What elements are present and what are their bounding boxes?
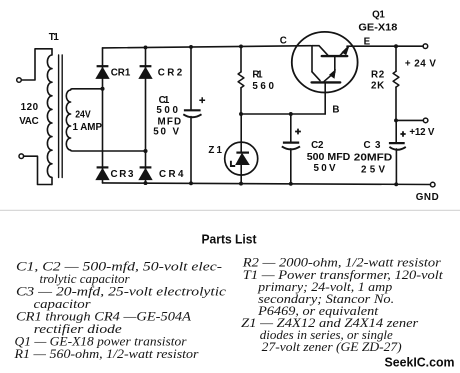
- node top rail / CR2: [144, 45, 148, 49]
- svg-text:CR4: CR4: [159, 169, 184, 180]
- resistor R2: [393, 71, 399, 87]
- svg-text:+ 24 V: + 24 V: [405, 58, 436, 69]
- svg-text:27-volt zener (GE ZD-27): 27-volt zener (GE ZD-27): [262, 339, 402, 354]
- wire C2 column: [290, 114, 292, 184]
- node E rail / R2: [394, 44, 398, 48]
- svg-text:500 MFD: 500 MFD: [307, 152, 351, 163]
- node ground / CR4: [144, 181, 148, 185]
- zener Z1 symbol: [231, 142, 249, 175]
- wire R1 column top: [240, 46, 242, 72]
- svg-text:C2: C2: [311, 140, 324, 151]
- svg-text:50V: 50V: [314, 163, 336, 174]
- wire diode column CR1/CR3: [102, 48, 104, 183]
- svg-text:1 AMP: 1 AMP: [73, 122, 103, 133]
- wire node B horizontal: [241, 113, 325, 115]
- parts list left column: [13, 258, 226, 361]
- wire +12V tap: [396, 119, 423, 121]
- wire primary bottom lead: [24, 156, 52, 184]
- transformer T1 primary winding: [47, 49, 52, 185]
- node ground / C3: [394, 182, 398, 186]
- svg-text:GE-X18: GE-X18: [358, 23, 398, 34]
- transformer T1 core: [59, 55, 63, 178]
- svg-text:560: 560: [252, 81, 274, 92]
- svg-text:2K: 2K: [371, 81, 384, 92]
- svg-text:R1: R1: [252, 70, 263, 81]
- svg-text:SeekIC.com: SeekIC.com: [385, 356, 455, 370]
- svg-text:+12 V: +12 V: [409, 127, 434, 138]
- node B / C2: [289, 112, 293, 116]
- transformer T1 secondary winding: [66, 89, 145, 151]
- node top rail / C1: [189, 45, 193, 49]
- svg-text:25V: 25V: [361, 164, 385, 175]
- svg-text:E: E: [364, 36, 371, 47]
- wire capacitor C1 column: [190, 47, 192, 183]
- svg-text:120: 120: [21, 102, 39, 113]
- terminal +24V: [423, 44, 428, 49]
- node ground / Z1: [239, 182, 243, 186]
- svg-text:GND: GND: [416, 192, 439, 203]
- capacitor C1 plates: [184, 109, 201, 111]
- svg-text:CR1: CR1: [111, 68, 131, 79]
- svg-text:C: C: [280, 36, 287, 47]
- node ground / C2: [289, 182, 293, 186]
- svg-text:Q1: Q1: [372, 10, 385, 21]
- wire R2 to +12V node: [395, 87, 397, 120]
- svg-text:20MFD: 20MFD: [354, 153, 393, 164]
- wire zener Z1 column: [240, 114, 242, 184]
- svg-text:VAC: VAC: [19, 116, 39, 127]
- svg-text:B: B: [332, 105, 339, 116]
- DIODES: [96, 66, 152, 179]
- node B / R1: [239, 112, 243, 116]
- diode CR3: [97, 166, 109, 168]
- parts list divider rule: [0, 209, 460, 211]
- node ground / C1: [189, 181, 193, 185]
- terminal GND: [430, 182, 435, 187]
- diode CR2: [140, 65, 152, 67]
- capacitor C1 polarity +: [199, 97, 205, 103]
- svg-text:24V: 24V: [75, 109, 91, 120]
- capacitor C2 plates: [283, 142, 299, 144]
- diode CR1: [97, 65, 109, 67]
- svg-text:R2: R2: [371, 70, 385, 81]
- wire R2 column top: [395, 46, 397, 71]
- wire R1 to node B: [240, 88, 242, 114]
- node AC input right (secondary bottom to CR2/CR4): [143, 149, 147, 153]
- svg-text:CR3: CR3: [111, 169, 135, 180]
- node +12V / R2 / C3: [394, 118, 398, 122]
- wire E rail to +24V: [347, 45, 423, 47]
- wire top rail (+): [103, 46, 312, 48]
- wire C3 column: [395, 120, 397, 184]
- parts list right column: [241, 254, 443, 354]
- resistor R1: [238, 72, 244, 88]
- svg-text:CR2: CR2: [158, 68, 183, 79]
- JUNCTION DOTS: [100, 44, 398, 186]
- wire primary top lead: [21, 49, 52, 80]
- zener Z1 circle: [225, 142, 258, 175]
- svg-text:Parts List: Parts List: [202, 232, 258, 247]
- capacitor C3 polarity +: [400, 131, 405, 136]
- svg-text:R1 — 560-ohm, 1/2-watt resisto: R1 — 560-ohm, 1/2-watt resistor: [13, 346, 199, 361]
- capacitor C3 plates: [389, 142, 405, 144]
- node AC input left (secondary top to CR1/CR3): [100, 87, 104, 91]
- wire ground rail: [103, 183, 431, 185]
- wire diode column CR2/CR4: [145, 47, 147, 183]
- transformer T1 primary terminal (top): [17, 78, 22, 83]
- capacitor C2 polarity +: [295, 129, 301, 135]
- diode CR4: [140, 166, 152, 168]
- svg-text:T1: T1: [49, 32, 60, 43]
- terminal +12V: [423, 118, 428, 123]
- CAPACITORS: [183, 97, 405, 149]
- transistor Q1: [292, 32, 358, 114]
- svg-text:500: 500: [156, 105, 178, 116]
- node top rail / R1: [239, 44, 243, 48]
- transformer T1 primary terminal (bottom): [19, 154, 24, 159]
